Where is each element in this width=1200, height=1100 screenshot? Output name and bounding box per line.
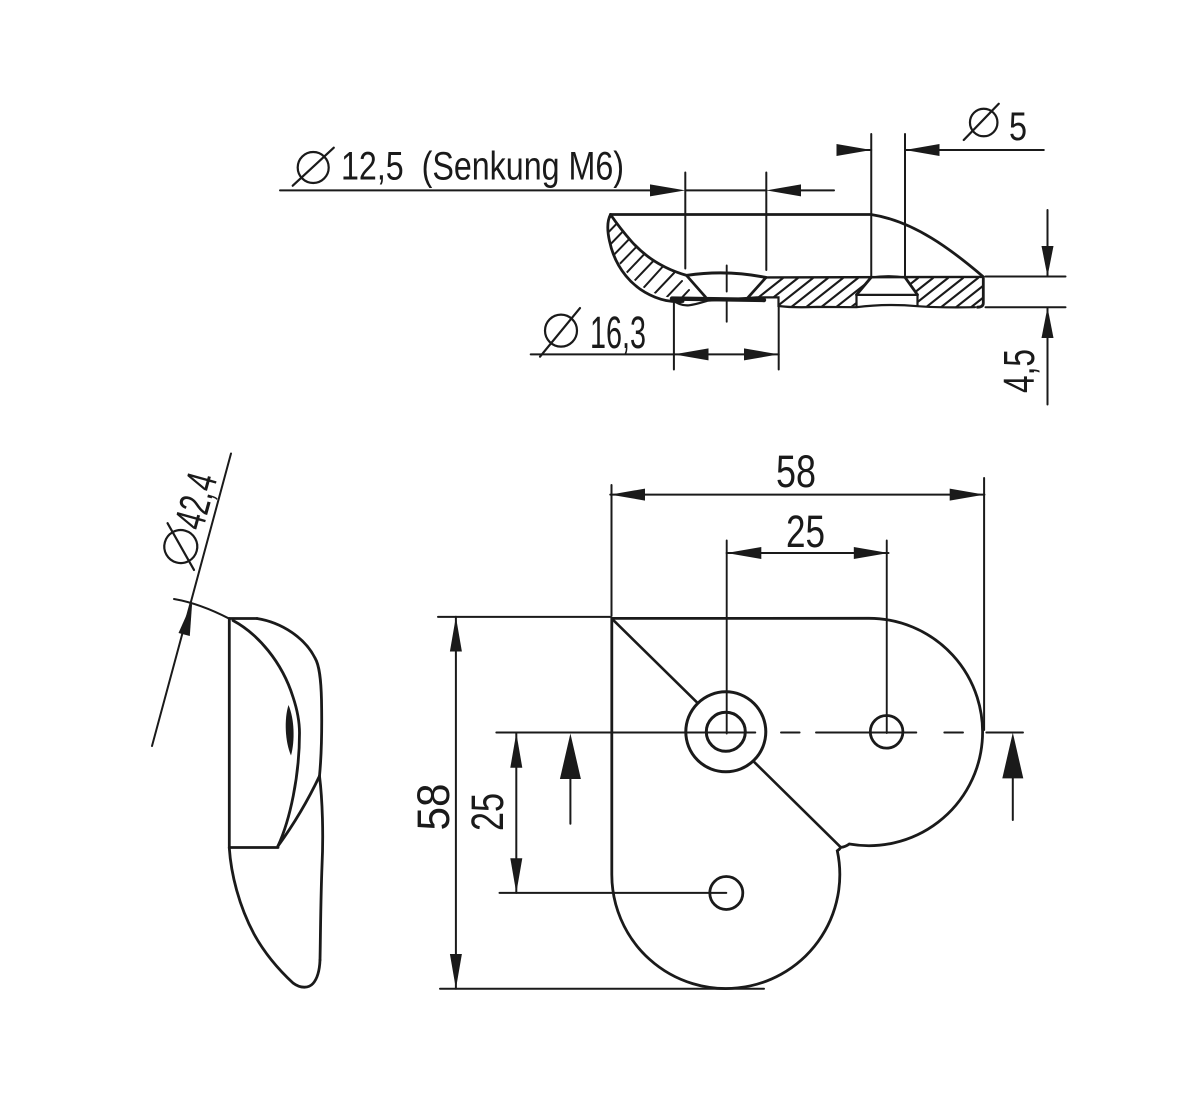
dim Ø12,5 line	[280, 189, 834, 191]
dim Ø16,3 leader+line	[531, 353, 779, 355]
side inner arc	[233, 621, 300, 847]
plan arrows	[450, 489, 985, 989]
svg-text:12,5 (Senkung M6): 12,5 (Senkung M6)	[341, 145, 624, 189]
svg-text:5: 5	[1009, 105, 1027, 149]
crescent hatching	[597, 208, 703, 330]
svg-text:58: 58	[408, 784, 459, 831]
thick bottom line	[672, 299, 764, 300]
Ø42,4 extension arc	[174, 599, 229, 619]
svg-text:25: 25	[462, 793, 513, 831]
horizontal centerline	[496, 732, 1023, 734]
ext 25 left / leader bottom hole	[499, 733, 726, 893]
label Ø42,4 rotated	[155, 468, 227, 572]
dim 58 left line	[455, 617, 457, 989]
labels of section	[341, 105, 1044, 393]
crescent inner	[611, 215, 688, 276]
dim 25 top line	[727, 552, 889, 554]
recess outline	[857, 295, 918, 307]
diameter symbols	[293, 104, 999, 357]
58 top arrows	[610, 489, 645, 501]
countersink lip	[687, 273, 766, 278]
Ø16,3 arrows (inside pointing out)	[674, 348, 709, 360]
side bottom outline	[229, 848, 320, 987]
hole flare walls	[857, 277, 918, 295]
plan labels	[408, 446, 825, 831]
countersink centerline	[726, 266, 728, 322]
dim 25 left line	[515, 733, 517, 893]
Ø12,5 arrows (outside)	[650, 184, 685, 196]
side lens highlight	[286, 705, 294, 756]
side outer arc upper	[257, 619, 322, 777]
dim 58 top line	[610, 494, 984, 496]
ext 58 left	[438, 617, 764, 989]
ext 58 top	[612, 478, 985, 730]
plan outline	[612, 618, 983, 988]
svg-text:25: 25	[786, 506, 825, 557]
dim 4,5 lines	[986, 210, 1066, 405]
plan diagonal	[612, 619, 841, 848]
DIMENSIONS of section	[280, 134, 1066, 405]
svg-text:16,3: 16,3	[590, 307, 646, 358]
Ø5 arrows (outside)	[837, 144, 872, 156]
Ø42,4 arrow	[179, 602, 193, 636]
side face arc	[278, 776, 320, 846]
Ø42,4 leader line	[152, 454, 231, 747]
svg-text:42,4: 42,4	[166, 468, 227, 535]
right hole	[870, 716, 903, 749]
ext lines Ø12,5	[685, 173, 766, 271]
plan dims	[438, 478, 984, 989]
SIDE VIEW	[229, 619, 322, 988]
crescent outer	[608, 215, 683, 302]
ext lines Ø5	[871, 134, 905, 276]
vertical centerline right hole	[886, 541, 888, 734]
58 left arrows	[450, 617, 462, 652]
side top edge	[229, 617, 257, 620]
ext lines Ø16,3	[674, 301, 779, 370]
bottom hole	[710, 877, 743, 910]
top surface line	[766, 276, 983, 279]
side outer arc lower	[320, 776, 323, 960]
4,5 arrows	[1042, 246, 1054, 277]
side left edge	[228, 619, 231, 849]
section direction arrows	[560, 733, 1023, 824]
dim Ø5 line	[838, 149, 1044, 151]
vertical centerline hole	[726, 541, 728, 734]
side chord	[229, 846, 278, 849]
arrows section	[650, 144, 1054, 360]
center hole inner	[706, 712, 745, 751]
section outline top	[611, 215, 984, 308]
center hole outer	[686, 692, 766, 772]
bottom wavy silhouette	[671, 297, 975, 307]
25 left arrows	[510, 733, 522, 768]
hole top bump	[871, 276, 905, 277]
countersink V walls	[687, 276, 766, 298]
svg-text:4,5: 4,5	[995, 349, 1044, 393]
band hatching	[740, 278, 1023, 312]
25 top arrows	[727, 547, 762, 559]
svg-text:58: 58	[776, 446, 816, 497]
